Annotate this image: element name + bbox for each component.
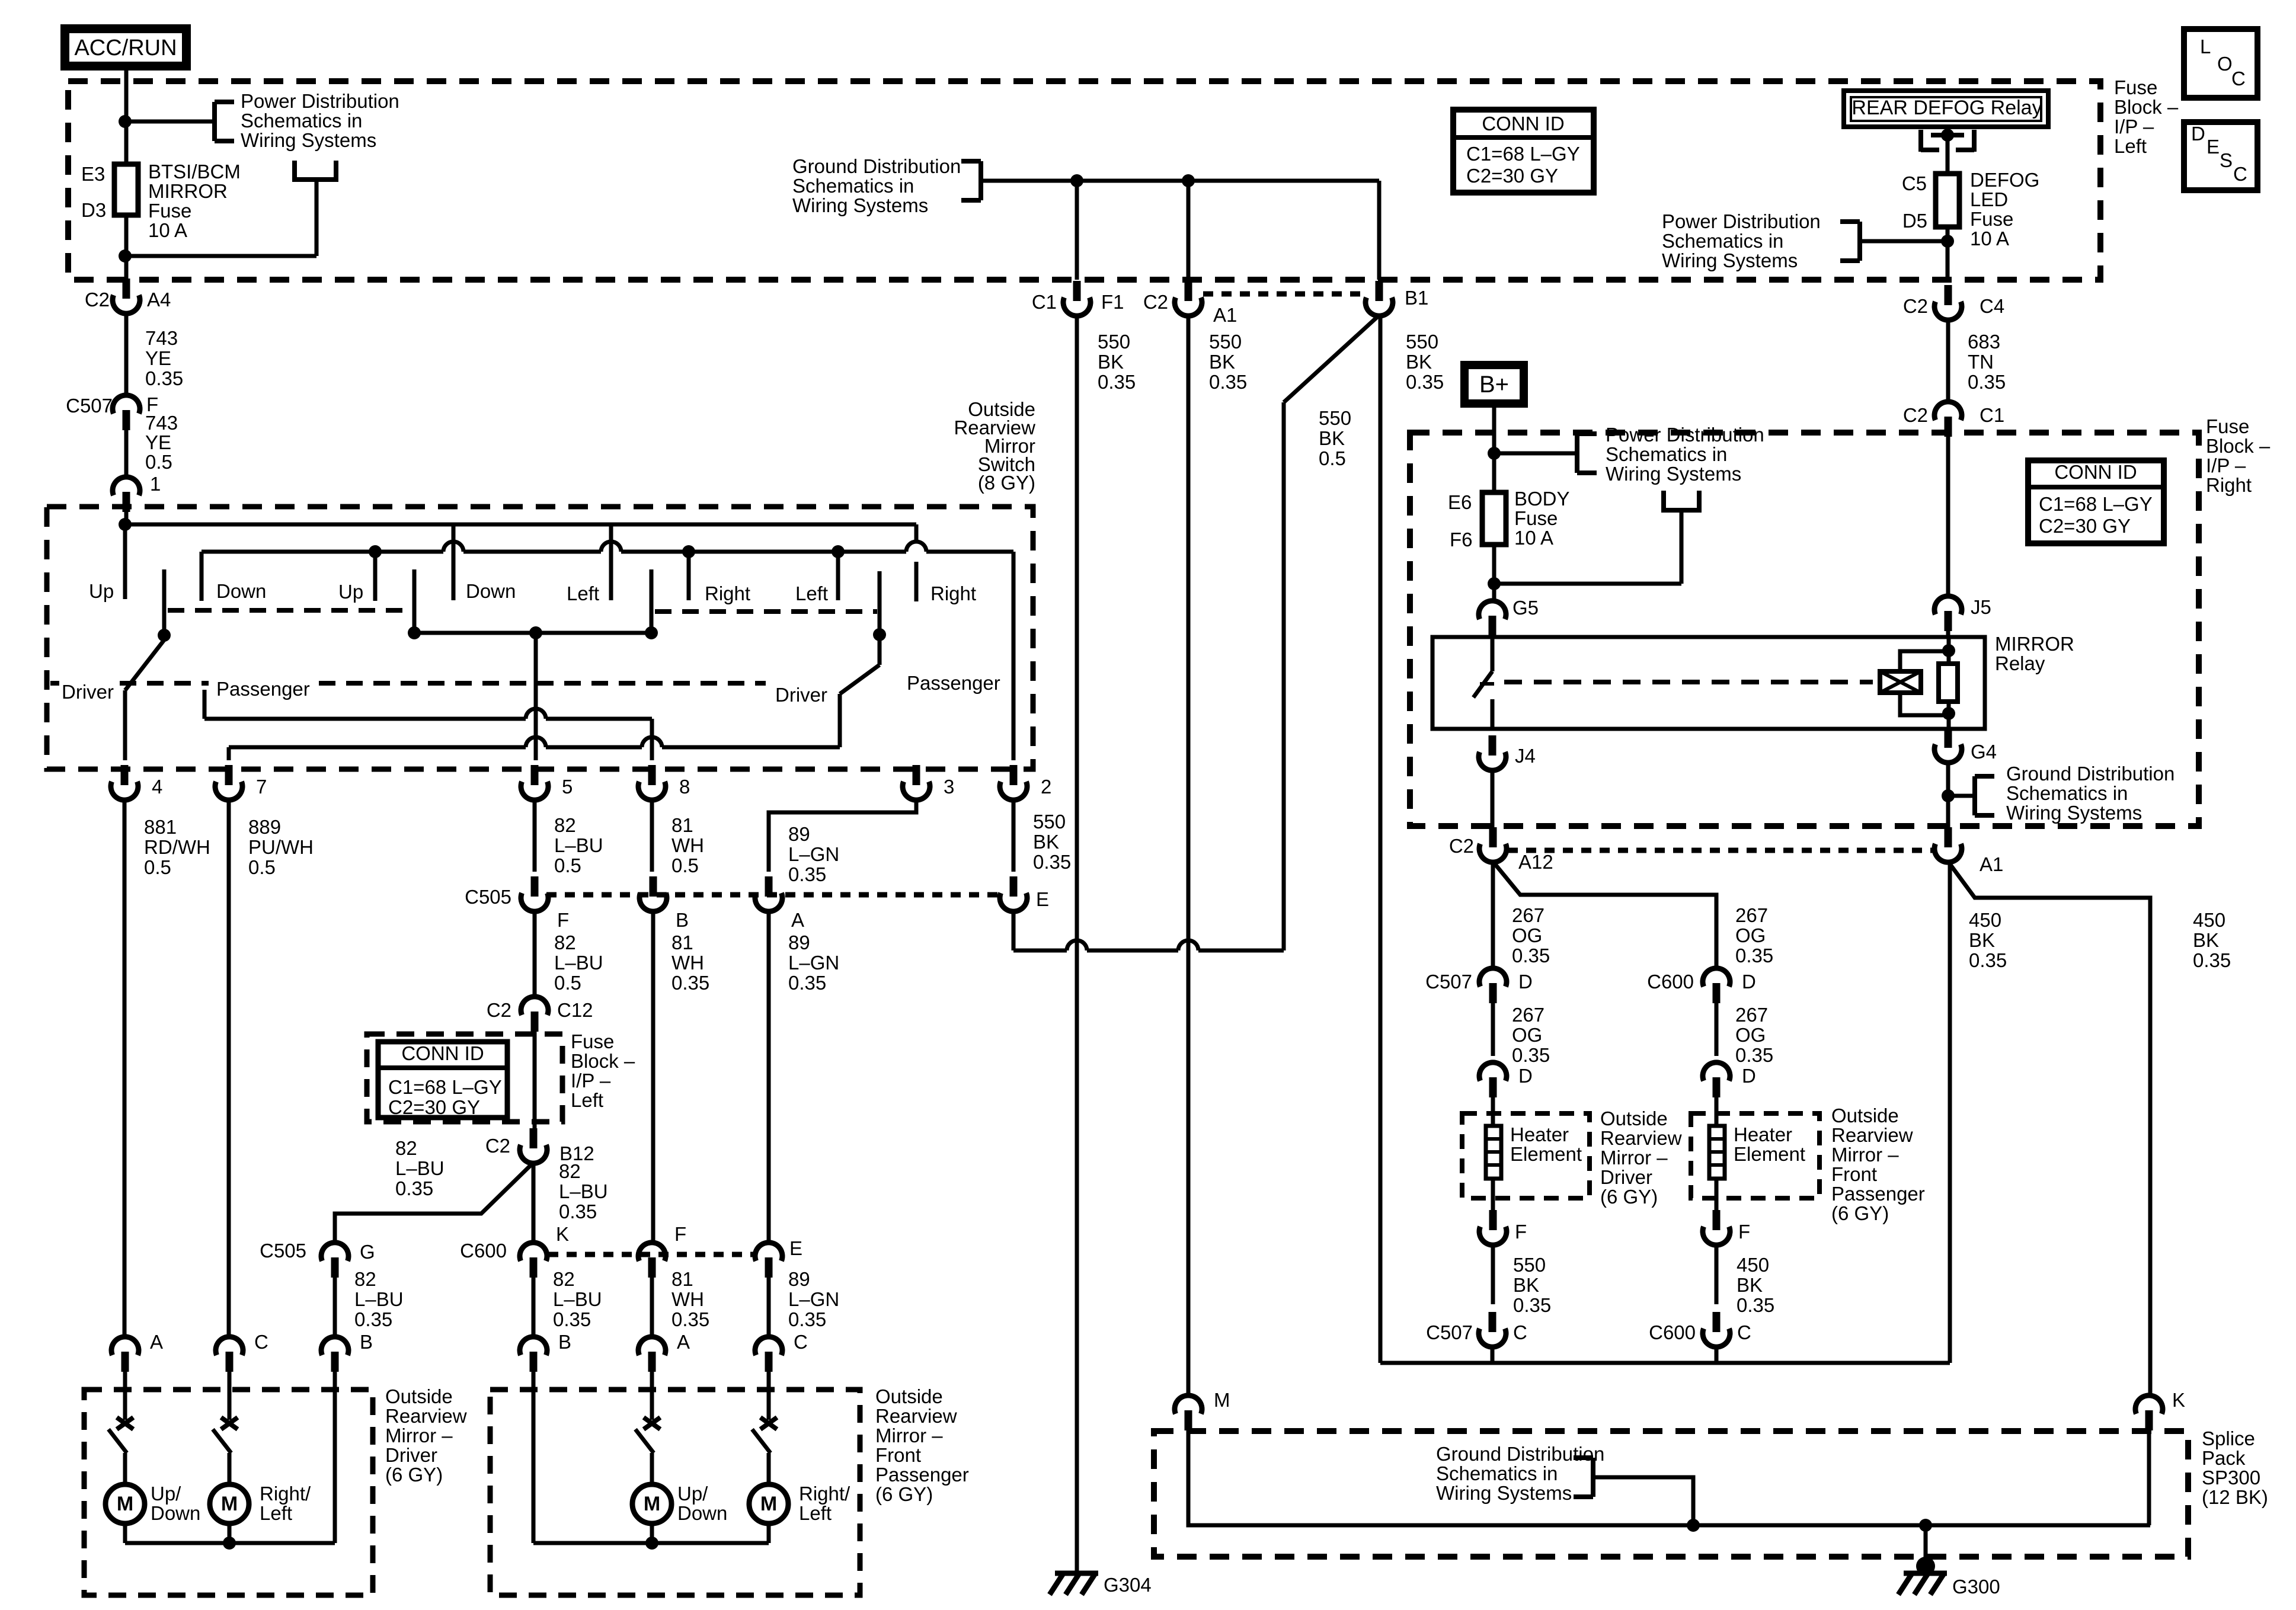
connector 1 (switch) bbox=[123, 492, 130, 512]
svg-text:Right/: Right/ bbox=[799, 1483, 850, 1505]
dotted row C2 A12..A1 bbox=[1508, 848, 1933, 853]
svg-text:E3: E3 bbox=[81, 163, 105, 185]
svg-text:Front: Front bbox=[1831, 1163, 1877, 1185]
svg-text:B: B bbox=[360, 1331, 373, 1353]
wire 743 YE 0.35 bbox=[124, 314, 129, 395]
svg-text:Driver: Driver bbox=[775, 684, 827, 706]
svg-text:Ground Distribution: Ground Distribution bbox=[792, 155, 961, 177]
label box CONN ID (right) bbox=[2028, 460, 2164, 543]
svg-text:L–BU: L–BU bbox=[554, 834, 603, 856]
svg-text:Down: Down bbox=[151, 1502, 200, 1524]
svg-text:C4: C4 bbox=[1980, 295, 2004, 317]
wire M down and right to ground bus bbox=[1188, 1429, 2150, 1525]
svg-text:C507: C507 bbox=[66, 395, 113, 417]
svg-text:Fuse: Fuse bbox=[2206, 415, 2249, 437]
connector C505/G bbox=[331, 1257, 339, 1278]
svg-text:Up: Up bbox=[89, 580, 114, 602]
svg-text:(6 GY): (6 GY) bbox=[875, 1483, 933, 1505]
svg-text:M: M bbox=[760, 1493, 777, 1515]
wire A12 diagonal branch to C600 heater bbox=[1493, 862, 1716, 968]
svg-text:WH: WH bbox=[671, 952, 704, 974]
svg-text:Passenger: Passenger bbox=[1831, 1183, 1925, 1205]
svg-text:0.5: 0.5 bbox=[671, 854, 699, 876]
svg-text:TN: TN bbox=[1968, 351, 1994, 373]
connector C507/D bbox=[1489, 983, 1497, 1003]
connector M bbox=[1185, 1410, 1192, 1430]
svg-text:REAR DEFOG Relay: REAR DEFOG Relay bbox=[1851, 97, 2042, 119]
svg-text:C: C bbox=[794, 1331, 808, 1353]
svg-text:F: F bbox=[1515, 1221, 1527, 1243]
svg-text:D5: D5 bbox=[1902, 210, 1927, 232]
svg-text:889: 889 bbox=[248, 816, 281, 838]
svg-text:C: C bbox=[1737, 1321, 1751, 1343]
wire to motor2 pass bbox=[767, 1453, 771, 1484]
svg-text:C: C bbox=[2233, 163, 2247, 185]
svg-text:F: F bbox=[674, 1223, 686, 1245]
svg-text:L–BU: L–BU bbox=[559, 1180, 608, 1202]
connector C2/A1 bbox=[1185, 281, 1192, 301]
svg-text:E: E bbox=[2207, 136, 2220, 158]
svg-text:0.5: 0.5 bbox=[248, 856, 276, 878]
connector B1 bbox=[1376, 281, 1383, 301]
svg-text:0.5: 0.5 bbox=[1319, 447, 1346, 469]
heater return bus bbox=[1380, 1361, 1950, 1365]
connector F (passenger heater) bbox=[1713, 1210, 1721, 1230]
wire J4 down to A12 bbox=[1491, 771, 1495, 828]
wire lever2-lever3 common to pin 5 bbox=[414, 631, 651, 635]
svg-text:550: 550 bbox=[1319, 407, 1351, 429]
relay coil X box bbox=[1880, 671, 1921, 693]
svg-text:C2=30 GY: C2=30 GY bbox=[1466, 165, 1558, 187]
svg-text:C2=30 GY: C2=30 GY bbox=[2039, 515, 2131, 537]
svg-text:Rearview: Rearview bbox=[385, 1405, 467, 1427]
wire B down bbox=[651, 912, 655, 1243]
wire to Wiring Systems u-bracket bbox=[125, 254, 316, 258]
svg-text:C2: C2 bbox=[1143, 291, 1168, 313]
svg-text:550: 550 bbox=[1033, 811, 1066, 833]
svg-text:I/P –: I/P – bbox=[2114, 116, 2154, 137]
svg-text:0.5: 0.5 bbox=[554, 854, 581, 876]
connector J5 bbox=[1945, 611, 1952, 631]
svg-text:G: G bbox=[360, 1241, 375, 1263]
wire A into box bbox=[123, 1372, 127, 1420]
svg-text:YE: YE bbox=[145, 347, 171, 369]
svg-text:Outside: Outside bbox=[385, 1385, 453, 1407]
svg-text:C: C bbox=[2231, 68, 2246, 89]
motor M up/down driver bbox=[105, 1484, 145, 1523]
svg-text:0.35: 0.35 bbox=[1098, 371, 1136, 393]
bracket power distribution (B+) bbox=[1575, 434, 1579, 473]
bus2 horizontal with hops bbox=[202, 550, 443, 554]
wire bracket to bus bbox=[1593, 1477, 1693, 1525]
svg-text:E: E bbox=[789, 1237, 802, 1259]
connector pin 5 (switch) bbox=[531, 765, 539, 785]
node G300 tap bbox=[1919, 1519, 1932, 1532]
svg-text:PU/WH: PU/WH bbox=[248, 836, 314, 858]
motor M right/left passenger bbox=[749, 1484, 788, 1523]
svg-text:C507: C507 bbox=[1425, 971, 1472, 993]
node defog branch bbox=[1941, 235, 1954, 248]
svg-text:BODY: BODY bbox=[1514, 488, 1570, 510]
wire A1 diagonal branch to splice pack bbox=[1948, 862, 2150, 1395]
wire C1/F1 down to G304 bbox=[1075, 316, 1079, 1571]
lever L2 bbox=[412, 569, 417, 633]
relay coil loop bbox=[1900, 651, 1949, 671]
wire G5 into relay bbox=[1491, 635, 1495, 671]
svg-text:G300: G300 bbox=[1952, 1576, 2000, 1598]
svg-text:0.35: 0.35 bbox=[559, 1201, 597, 1222]
svg-text:O: O bbox=[2217, 53, 2233, 75]
svg-text:A12: A12 bbox=[1518, 851, 1553, 873]
svg-text:C2: C2 bbox=[1903, 295, 1928, 317]
svg-text:Down: Down bbox=[216, 580, 266, 602]
wire bus2 to connector 2 bbox=[1012, 552, 1016, 760]
svg-text:0.35: 0.35 bbox=[1737, 1294, 1774, 1316]
wire G down bbox=[333, 1278, 337, 1337]
connector E (C600 row) bbox=[765, 1257, 773, 1278]
svg-text:Element: Element bbox=[1510, 1143, 1582, 1165]
wire lever4 to pin 7 with hops bbox=[229, 745, 526, 750]
relay coil resistor bbox=[1939, 664, 1958, 702]
svg-text:DEFOG: DEFOG bbox=[1970, 169, 2039, 191]
svg-text:Outside: Outside bbox=[1831, 1105, 1899, 1126]
svg-text:550: 550 bbox=[1406, 331, 1438, 353]
connector C600/D bbox=[1713, 983, 1721, 1003]
wire G4 down bbox=[1946, 763, 1950, 828]
svg-text:(6 GY): (6 GY) bbox=[1831, 1202, 1889, 1224]
svg-text:L: L bbox=[2200, 36, 2211, 57]
svg-text:BK: BK bbox=[1969, 929, 1995, 951]
svg-text:C: C bbox=[254, 1331, 268, 1353]
svg-text:A: A bbox=[150, 1331, 163, 1353]
wire C into box bbox=[228, 1372, 232, 1420]
svg-text:0.35: 0.35 bbox=[553, 1308, 591, 1330]
svg-text:BK: BK bbox=[1737, 1274, 1763, 1296]
relay control dashed line bbox=[1504, 680, 1873, 684]
connector C2/A12 bbox=[1489, 827, 1497, 847]
svg-text:C12: C12 bbox=[557, 999, 593, 1021]
dashed box fuse block top (I/P left interior) bbox=[68, 81, 2100, 280]
connector B (mirror) bbox=[331, 1352, 339, 1372]
svg-text:B+: B+ bbox=[1479, 372, 1509, 398]
svg-text:(12 BK): (12 BK) bbox=[2202, 1486, 2268, 1508]
svg-text:550: 550 bbox=[1209, 331, 1242, 353]
svg-text:CONN ID: CONN ID bbox=[2054, 461, 2137, 483]
wire drop to C2/A1 bbox=[1187, 181, 1191, 280]
motor M right/left driver bbox=[210, 1484, 249, 1523]
svg-text:J4: J4 bbox=[1515, 745, 1536, 767]
connector pin 2 (switch) bbox=[1010, 765, 1018, 785]
svg-text:Rearview: Rearview bbox=[1600, 1127, 1682, 1149]
svg-text:C1: C1 bbox=[1980, 404, 2004, 426]
wire pin2 down to E bbox=[1012, 801, 1016, 872]
svg-text:450: 450 bbox=[1969, 909, 2001, 931]
svg-text:C2: C2 bbox=[485, 1135, 510, 1157]
node left2 bbox=[832, 545, 845, 558]
svg-text:Pack: Pack bbox=[2202, 1447, 2246, 1469]
wire J5 into relay bbox=[1946, 630, 1950, 637]
svg-text:82: 82 bbox=[395, 1137, 417, 1159]
svg-text:BK: BK bbox=[1513, 1274, 1539, 1296]
wire C pass into box bbox=[767, 1372, 771, 1420]
node bracket join bbox=[1687, 1519, 1700, 1532]
svg-text:OG: OG bbox=[1735, 924, 1766, 946]
svg-text:Right: Right bbox=[930, 582, 976, 604]
svg-text:F: F bbox=[1738, 1221, 1750, 1243]
svg-text:A: A bbox=[677, 1331, 690, 1353]
svg-text:Mirror –: Mirror – bbox=[875, 1425, 943, 1446]
svg-text:267: 267 bbox=[1512, 1004, 1544, 1026]
svg-text:0.35: 0.35 bbox=[145, 367, 183, 389]
svg-text:683: 683 bbox=[1968, 331, 2000, 353]
svg-text:L–GN: L–GN bbox=[788, 1288, 839, 1310]
svg-text:BK: BK bbox=[1209, 351, 1235, 373]
heater element driver bbox=[1486, 1126, 1501, 1179]
connector pin 4 (switch) bbox=[121, 765, 129, 785]
svg-text:Block –: Block – bbox=[2206, 435, 2271, 457]
connector K bbox=[2145, 1410, 2153, 1430]
svg-text:82: 82 bbox=[554, 814, 576, 836]
contact Up passenger-vertical bbox=[373, 552, 378, 601]
svg-text:C2: C2 bbox=[1903, 404, 1928, 426]
dashed box Outside Rearview Mirror Front Passenger bbox=[490, 1390, 860, 1595]
svg-text:Driver: Driver bbox=[385, 1444, 437, 1466]
connector pin 8 (switch) bbox=[648, 765, 656, 785]
svg-text:Left: Left bbox=[567, 582, 599, 604]
wire 267 OG pass bbox=[1715, 1002, 1719, 1056]
coupling dashed L1-L2 bbox=[168, 608, 410, 613]
bracket ground distribution (bottom) bbox=[1591, 1458, 1595, 1497]
svg-text:10 A: 10 A bbox=[1970, 228, 2009, 249]
svg-text:Passenger: Passenger bbox=[907, 672, 1000, 694]
connector C2/C4 bbox=[1945, 285, 1952, 305]
svg-text:Right: Right bbox=[2206, 474, 2252, 496]
svg-text:0.35: 0.35 bbox=[395, 1177, 433, 1199]
contact Right from bus1 (corner) bbox=[914, 524, 919, 542]
svg-text:A: A bbox=[791, 909, 804, 931]
svg-text:Front: Front bbox=[875, 1444, 921, 1466]
svg-text:82: 82 bbox=[559, 1160, 581, 1182]
svg-text:M: M bbox=[1214, 1389, 1230, 1411]
coupling dashed selector row bbox=[50, 681, 59, 686]
bus1 horizontal bbox=[125, 523, 916, 527]
wire A1 down to heater return bbox=[1948, 863, 1952, 1363]
fuse BODY Fuse 10 A (E6/F6) bbox=[1482, 492, 1506, 545]
node C2/A1 drop bbox=[1182, 174, 1195, 187]
node coil top bbox=[1942, 644, 1955, 657]
svg-text:Schematics in: Schematics in bbox=[1436, 1462, 1558, 1484]
bracket Power Distribution ref (top left) bbox=[212, 102, 217, 141]
svg-text:0.35: 0.35 bbox=[1512, 945, 1550, 966]
connector G5 bbox=[1489, 616, 1496, 636]
label box REAR DEFOG Relay bbox=[1844, 91, 2048, 127]
svg-text:C600: C600 bbox=[460, 1240, 507, 1262]
connector C507/C bbox=[1489, 1312, 1496, 1332]
svg-text:ACC/RUN: ACC/RUN bbox=[74, 36, 177, 60]
svg-text:WH: WH bbox=[671, 834, 704, 856]
wire C2/A1 down to M connector bbox=[1187, 316, 1191, 1395]
wire F6 down bbox=[1492, 545, 1496, 600]
svg-text:E: E bbox=[1036, 888, 1049, 910]
svg-text:BK: BK bbox=[1319, 427, 1345, 449]
wire C505/F down bbox=[533, 912, 537, 996]
svg-text:81: 81 bbox=[671, 932, 693, 953]
svg-text:Up: Up bbox=[338, 581, 363, 603]
label box ACC/RUN bbox=[60, 24, 191, 71]
wire pin8 down bbox=[650, 801, 654, 872]
svg-text:0.35: 0.35 bbox=[2193, 949, 2231, 971]
svg-text:LED: LED bbox=[1970, 188, 2008, 210]
svg-text:Driver: Driver bbox=[1600, 1166, 1652, 1188]
relay box MIRROR Relay bbox=[1432, 637, 1985, 729]
connector A (mirror) bbox=[648, 1352, 656, 1372]
svg-text:D: D bbox=[2191, 123, 2205, 145]
wire B down to bus bbox=[333, 1372, 337, 1543]
motor M up/down passenger bbox=[632, 1484, 671, 1523]
svg-text:G5: G5 bbox=[1512, 597, 1539, 619]
svg-text:5: 5 bbox=[562, 776, 573, 798]
svg-text:0.5: 0.5 bbox=[144, 856, 171, 878]
wire 267 OG bbox=[1491, 1002, 1495, 1056]
connector C (mirror) bbox=[765, 1352, 773, 1372]
dashed box heater driver bbox=[1462, 1113, 1590, 1198]
wire pin5 down bbox=[533, 801, 537, 872]
svg-text:Fuse: Fuse bbox=[1970, 208, 2013, 230]
fuse DEFOG LED Fuse 10 A (C5/D5) bbox=[1936, 174, 1959, 227]
svg-text:Mirror –: Mirror – bbox=[1831, 1144, 1899, 1166]
svg-text:Ground Distribution: Ground Distribution bbox=[2006, 763, 2175, 785]
node C1/F1 drop bbox=[1070, 174, 1083, 187]
svg-text:C600: C600 bbox=[1649, 1321, 1696, 1343]
svg-text:89: 89 bbox=[788, 932, 810, 953]
contact Left from bus2 bbox=[836, 552, 840, 600]
connector C507/F bbox=[123, 410, 130, 430]
heater element passenger bbox=[1709, 1126, 1725, 1179]
wire A1 column up from bus bbox=[1948, 870, 1952, 1363]
svg-text:550: 550 bbox=[1513, 1254, 1546, 1276]
u-bracket under Wiring Systems (B+) bbox=[1664, 491, 1699, 510]
label box B+ bbox=[1460, 361, 1528, 408]
svg-text:Fuse: Fuse bbox=[571, 1030, 614, 1052]
dashed box fuse block I/P right bbox=[1410, 433, 2199, 826]
svg-text:M: M bbox=[117, 1493, 133, 1515]
svg-text:Ground Distribution: Ground Distribution bbox=[1436, 1443, 1604, 1465]
wire to Power Distribution bracket bbox=[125, 120, 215, 124]
svg-text:L–BU: L–BU bbox=[554, 952, 603, 974]
svg-text:I/P –: I/P – bbox=[2206, 454, 2246, 476]
svg-text:C507: C507 bbox=[1426, 1321, 1473, 1343]
wire to motor2 bbox=[228, 1453, 232, 1484]
wire B12 down to C600/K bbox=[532, 1164, 536, 1243]
connector F (C600 row) bbox=[648, 1257, 656, 1278]
svg-text:Left: Left bbox=[2114, 135, 2147, 157]
svg-text:F1: F1 bbox=[1101, 291, 1124, 313]
wire E loop down/right/up to 550BK0.5 bbox=[1012, 912, 1016, 950]
wire to u-bracket bbox=[1494, 582, 1681, 586]
svg-text:B: B bbox=[558, 1331, 571, 1353]
ground G304 symbol bbox=[1055, 1571, 1098, 1576]
svg-text:A4: A4 bbox=[147, 289, 171, 311]
switch lever A pass bbox=[635, 1429, 654, 1453]
wire into heater pass bbox=[1715, 1096, 1719, 1126]
svg-text:Schematics in: Schematics in bbox=[2006, 782, 2128, 804]
svg-text:Driver: Driver bbox=[62, 681, 114, 703]
svg-text:0.35: 0.35 bbox=[1969, 949, 2007, 971]
svg-text:Right/: Right/ bbox=[260, 1483, 311, 1505]
svg-text:1: 1 bbox=[150, 473, 161, 495]
svg-text:0.35: 0.35 bbox=[1406, 371, 1444, 393]
wire pin7 down bbox=[227, 801, 231, 1337]
node right1 bbox=[682, 545, 695, 558]
svg-text:0.35: 0.35 bbox=[788, 1308, 826, 1330]
contact Down driver-vertical from bus2 bbox=[200, 552, 204, 601]
bracket power distribution (defog) bbox=[1857, 222, 1862, 261]
svg-text:J5: J5 bbox=[1971, 596, 1991, 618]
connector D (driver mirror) bbox=[1489, 1077, 1497, 1097]
svg-text:Left: Left bbox=[260, 1502, 292, 1524]
connector E (C505) bbox=[1010, 876, 1018, 897]
connector B (C505) bbox=[650, 876, 657, 897]
wire defog relay to fuse bbox=[1946, 135, 1950, 174]
wire to motor1 pass bbox=[650, 1453, 654, 1484]
svg-text:0.35: 0.35 bbox=[1735, 1044, 1773, 1066]
svg-text:Left: Left bbox=[799, 1502, 832, 1524]
svg-text:Up/: Up/ bbox=[151, 1483, 181, 1505]
svg-text:0.35: 0.35 bbox=[1033, 851, 1071, 873]
svg-text:81: 81 bbox=[671, 814, 693, 836]
svg-text:G4: G4 bbox=[1971, 741, 1997, 763]
svg-text:(6 GY): (6 GY) bbox=[1600, 1186, 1658, 1208]
svg-text:881: 881 bbox=[144, 816, 177, 838]
wire C pass down bbox=[1715, 1347, 1719, 1363]
svg-text:C600: C600 bbox=[1647, 971, 1694, 993]
svg-text:L–BU: L–BU bbox=[553, 1288, 602, 1310]
switch lever C pass bbox=[752, 1429, 770, 1453]
node G4 ground ref bbox=[1942, 789, 1955, 802]
svg-text:Element: Element bbox=[1734, 1143, 1805, 1165]
switch x C bbox=[221, 1417, 238, 1429]
svg-text:Left: Left bbox=[795, 582, 828, 604]
connector pin 3 (switch) bbox=[913, 765, 920, 785]
svg-text:MIRROR: MIRROR bbox=[148, 180, 228, 202]
node up2 bbox=[369, 545, 382, 558]
svg-text:10 A: 10 A bbox=[1514, 527, 1553, 549]
svg-text:Block –: Block – bbox=[571, 1050, 635, 1072]
svg-text:G304: G304 bbox=[1104, 1574, 1152, 1596]
connector C2/B12 bbox=[530, 1128, 538, 1148]
svg-text:OG: OG bbox=[1512, 924, 1542, 946]
svg-text:0.5: 0.5 bbox=[554, 972, 581, 994]
label box LOC bbox=[2184, 29, 2257, 98]
fuse BTSI/BCM MIRROR Fuse 10 A (E3/D3) bbox=[114, 164, 138, 215]
svg-text:Splice: Splice bbox=[2202, 1427, 2255, 1449]
svg-text:C2=30 GY: C2=30 GY bbox=[388, 1096, 480, 1118]
wire ground bus to B1 bbox=[981, 179, 1379, 183]
svg-text:CONN ID: CONN ID bbox=[401, 1042, 484, 1064]
svg-text:BK: BK bbox=[1033, 831, 1059, 853]
dashed box fuse block I/P left (around CONN ID) bbox=[367, 1034, 562, 1122]
connector A1 (fuse block right) bbox=[1945, 827, 1952, 847]
svg-text:L–GN: L–GN bbox=[788, 952, 839, 974]
svg-text:743: 743 bbox=[145, 327, 178, 349]
connector C600/C bbox=[1713, 1312, 1721, 1332]
node below fuse bbox=[119, 249, 132, 263]
svg-text:Down: Down bbox=[677, 1502, 727, 1524]
svg-text:C5: C5 bbox=[1902, 172, 1927, 194]
svg-text:0.35: 0.35 bbox=[788, 863, 826, 885]
wire pin3 jog to A bbox=[769, 801, 916, 872]
wire pin4 down bbox=[123, 801, 127, 1337]
